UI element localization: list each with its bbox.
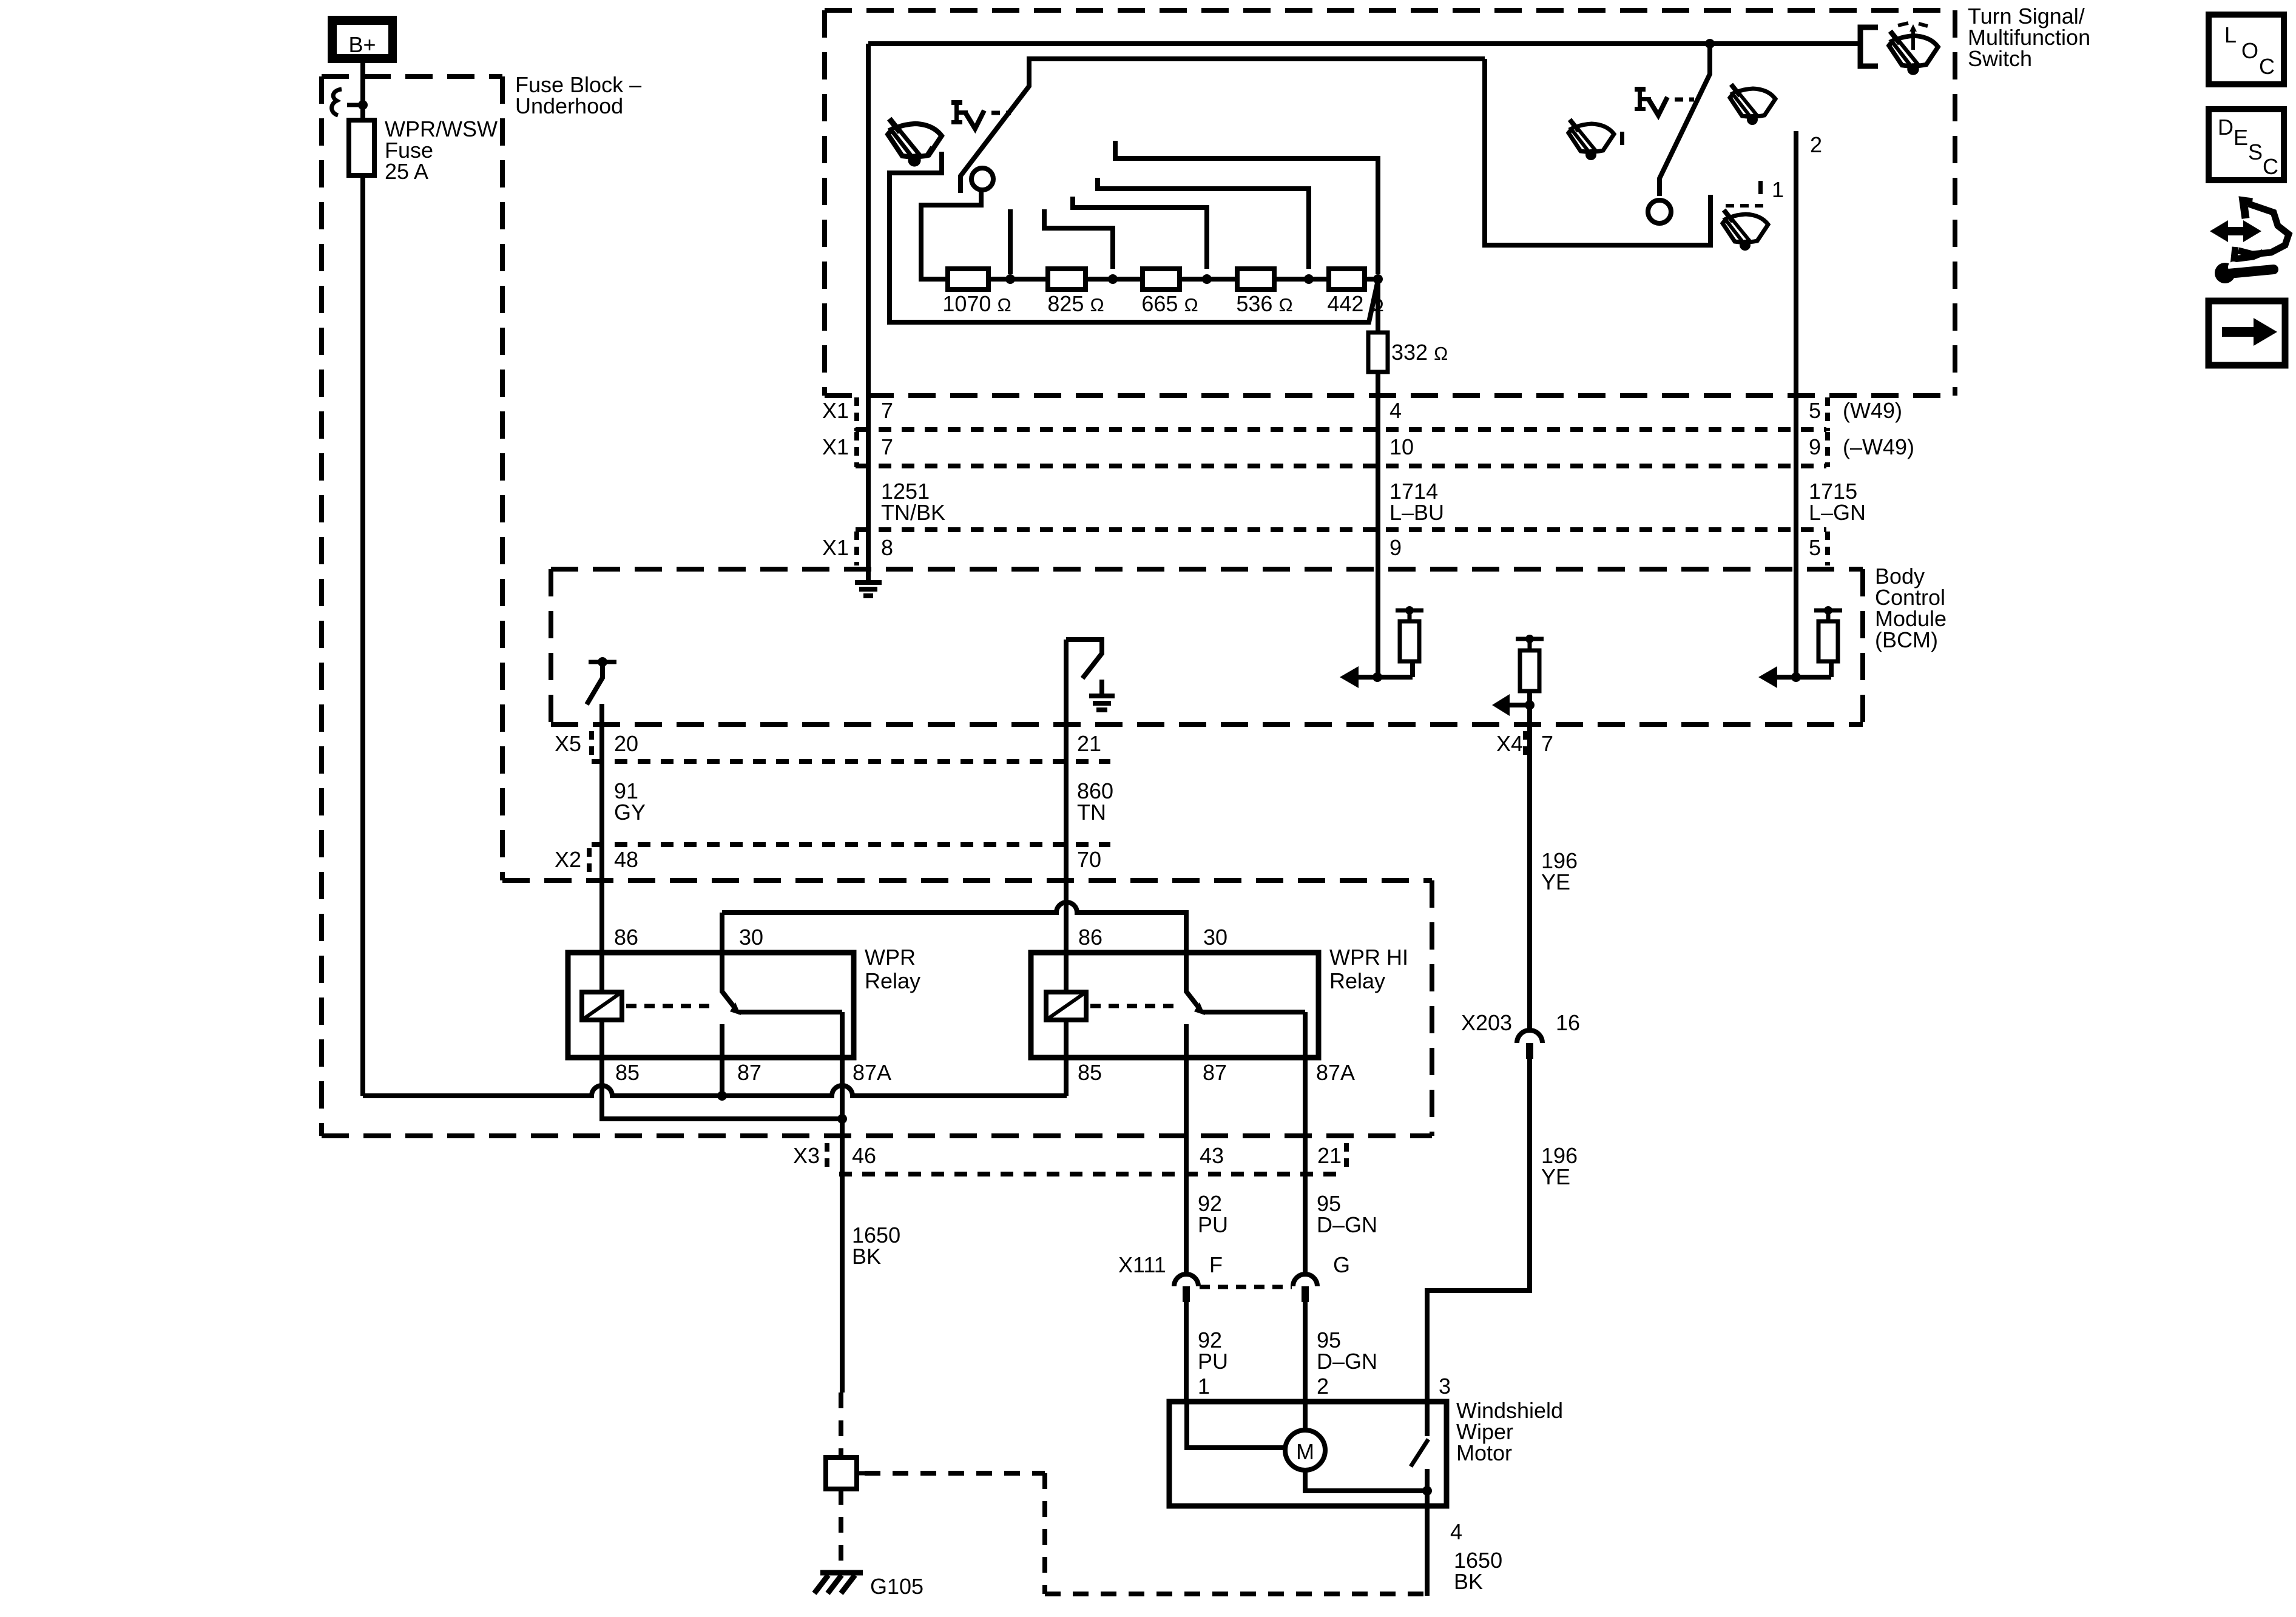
svg-text:GY: GY xyxy=(614,800,646,825)
svg-text:30: 30 xyxy=(739,925,763,950)
svg-text:48: 48 xyxy=(614,847,638,872)
svg-text:X1: X1 xyxy=(822,398,849,423)
svg-text:86: 86 xyxy=(1078,925,1102,950)
svg-text:665 Ω: 665 Ω xyxy=(1141,291,1198,316)
svg-text:2: 2 xyxy=(1810,132,1822,157)
svg-text:1: 1 xyxy=(1198,1374,1210,1399)
svg-text:25 A: 25 A xyxy=(385,159,428,184)
svg-text:D: D xyxy=(2218,115,2234,140)
svg-text:X203: X203 xyxy=(1461,1010,1512,1035)
svg-text:87: 87 xyxy=(737,1060,761,1085)
svg-text:10: 10 xyxy=(1389,434,1414,459)
svg-text:TN: TN xyxy=(1077,800,1106,825)
svg-text:5: 5 xyxy=(1809,398,1821,423)
svg-text:D–GN: D–GN xyxy=(1317,1349,1377,1374)
svg-text:5: 5 xyxy=(1809,535,1821,560)
svg-text:E: E xyxy=(2234,125,2248,150)
svg-text:X3: X3 xyxy=(793,1143,820,1168)
svg-text:(–W49): (–W49) xyxy=(1843,434,1914,459)
svg-text:X1: X1 xyxy=(822,535,849,560)
svg-text:BK: BK xyxy=(852,1244,881,1269)
svg-text:21: 21 xyxy=(1077,731,1101,756)
svg-text:4: 4 xyxy=(1450,1519,1462,1544)
svg-text:7: 7 xyxy=(1541,731,1553,756)
svg-text:D–GN: D–GN xyxy=(1317,1212,1377,1237)
svg-text:43: 43 xyxy=(1200,1143,1224,1168)
svg-text:3: 3 xyxy=(1439,1374,1451,1399)
svg-text:PU: PU xyxy=(1198,1349,1228,1374)
svg-text:X4: X4 xyxy=(1496,731,1523,756)
svg-text:70: 70 xyxy=(1077,847,1101,872)
svg-text:87: 87 xyxy=(1203,1060,1227,1085)
svg-text:1070 Ω: 1070 Ω xyxy=(942,291,1011,316)
svg-text:2: 2 xyxy=(1317,1374,1329,1399)
svg-text:46: 46 xyxy=(852,1143,876,1168)
svg-text:YE: YE xyxy=(1541,1164,1570,1189)
svg-text:87A: 87A xyxy=(853,1060,891,1085)
svg-text:L–BU: L–BU xyxy=(1389,500,1444,525)
svg-text:X5: X5 xyxy=(555,731,581,756)
svg-text:9: 9 xyxy=(1389,535,1402,560)
svg-text:20: 20 xyxy=(614,731,638,756)
svg-text:B+: B+ xyxy=(348,32,376,57)
svg-text:(BCM): (BCM) xyxy=(1875,627,1938,652)
svg-text:Relay: Relay xyxy=(1329,968,1385,993)
svg-text:L–GN: L–GN xyxy=(1809,500,1866,525)
svg-text:16: 16 xyxy=(1556,1010,1580,1035)
svg-text:X2: X2 xyxy=(555,847,581,872)
svg-text:85: 85 xyxy=(1078,1060,1102,1085)
svg-text:87A: 87A xyxy=(1316,1060,1355,1085)
svg-text:30: 30 xyxy=(1203,925,1227,950)
svg-text:X111: X111 xyxy=(1118,1252,1166,1277)
svg-text:G105: G105 xyxy=(870,1574,923,1599)
svg-text:C: C xyxy=(2263,154,2278,179)
svg-text:7: 7 xyxy=(881,434,893,459)
svg-text:O: O xyxy=(2241,38,2258,63)
svg-text:WPR: WPR xyxy=(865,945,916,970)
svg-text:S: S xyxy=(2248,140,2263,164)
svg-text:PU: PU xyxy=(1198,1212,1228,1237)
svg-text:Switch: Switch xyxy=(1968,46,2032,71)
svg-text:7: 7 xyxy=(881,398,893,423)
svg-text:F: F xyxy=(1209,1252,1223,1277)
svg-text:Relay: Relay xyxy=(865,968,920,993)
svg-text:(W49): (W49) xyxy=(1843,398,1902,423)
svg-text:Motor: Motor xyxy=(1456,1440,1512,1465)
svg-text:332 Ω: 332 Ω xyxy=(1391,340,1448,365)
svg-text:825 Ω: 825 Ω xyxy=(1047,291,1104,316)
svg-text:X1: X1 xyxy=(822,434,849,459)
svg-text:1: 1 xyxy=(1772,177,1784,202)
svg-text:21: 21 xyxy=(1317,1143,1342,1168)
svg-text:4: 4 xyxy=(1389,398,1402,423)
svg-text:TN/BK: TN/BK xyxy=(881,500,945,525)
svg-text:C: C xyxy=(2259,54,2275,79)
svg-text:M: M xyxy=(1296,1439,1314,1464)
svg-text:Underhood: Underhood xyxy=(515,93,623,118)
svg-text:85: 85 xyxy=(615,1060,640,1085)
svg-text:WPR HI: WPR HI xyxy=(1329,945,1408,970)
svg-text:G: G xyxy=(1333,1252,1350,1277)
svg-text:86: 86 xyxy=(614,925,638,950)
svg-text:9: 9 xyxy=(1809,434,1821,459)
svg-text:8: 8 xyxy=(881,535,893,560)
svg-text:YE: YE xyxy=(1541,869,1570,894)
svg-text:L: L xyxy=(2224,22,2237,47)
svg-text:536 Ω: 536 Ω xyxy=(1236,291,1292,316)
svg-text:BK: BK xyxy=(1454,1569,1483,1594)
svg-text:442 Ω: 442 Ω xyxy=(1327,291,1383,316)
